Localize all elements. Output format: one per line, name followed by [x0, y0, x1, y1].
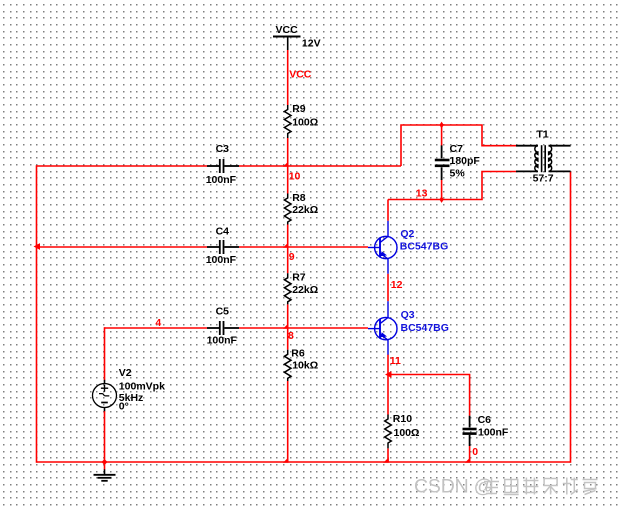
svg-text:C3: C3 — [216, 143, 230, 155]
svg-text:100Ω: 100Ω — [394, 427, 420, 439]
svg-text:8: 8 — [288, 330, 294, 342]
wire center column R6-bottom — [287, 381, 289, 462]
svg-text:13: 13 — [416, 188, 428, 200]
capacitor C3 — [207, 159, 239, 173]
wire node10 row right of C3 — [239, 165, 401, 167]
resistor R10 — [385, 415, 392, 449]
svg-text:BC547BG: BC547BG — [400, 241, 448, 253]
svg-text:100nF: 100nF — [478, 427, 509, 439]
wire node10 riser to top rail — [401, 125, 516, 166]
junction R10 bottom — [383, 457, 389, 463]
svg-text:C7: C7 — [450, 143, 464, 155]
resistor R8 — [284, 194, 291, 225]
svg-text:100nF: 100nF — [206, 174, 237, 186]
wire node12 between Q2 Q3 — [387, 274, 389, 302]
svg-text:9: 9 — [289, 251, 295, 263]
svg-text:22kΩ: 22kΩ — [292, 204, 318, 216]
ground — [94, 469, 116, 481]
wire C7 top stub — [441, 125, 443, 146]
wire center column R8-R7 — [287, 225, 289, 274]
wire node10 row left of C3 — [37, 165, 208, 167]
svg-text:T1: T1 — [537, 128, 549, 140]
transistor Q2 — [368, 221, 397, 274]
power VCC symbol — [273, 37, 301, 51]
capacitor C6 — [463, 416, 477, 446]
svg-text:5%: 5% — [450, 167, 466, 179]
resistor R9 — [284, 105, 291, 138]
wire node13 Q2 collector riser — [387, 200, 389, 221]
transistor Q3 — [368, 301, 397, 355]
wire node9 row right of C4 to Q2 base — [239, 246, 368, 248]
svg-text:180pF: 180pF — [450, 155, 481, 167]
wire center column R9-R8 — [287, 138, 289, 194]
svg-text:57:7: 57:7 — [533, 173, 554, 185]
svg-text:12V: 12V — [302, 38, 321, 50]
svg-text:100mVpk: 100mVpk — [119, 381, 165, 393]
junction node 11 — [385, 371, 392, 378]
svg-text:4: 4 — [155, 317, 161, 329]
junction node 8 — [283, 323, 289, 329]
junction C7 bottom node 13 — [439, 196, 443, 203]
resistor R6 — [284, 350, 291, 381]
svg-text:0: 0 — [472, 446, 478, 458]
watermark CSDN — [414, 476, 493, 498]
wire bottom rail — [37, 461, 571, 463]
wire C7 bottom stub — [441, 180, 443, 200]
junction C7 top — [439, 122, 443, 129]
wire C6 bottom — [469, 446, 471, 462]
wire V2 top — [104, 327, 106, 380]
wire R10 top — [387, 375, 389, 415]
svg-text:Q2: Q2 — [400, 228, 414, 240]
wire node11 rail to C6 — [388, 375, 470, 416]
svg-text:11: 11 — [390, 355, 401, 367]
junction C6 bottom — [465, 457, 471, 463]
svg-text:12: 12 — [391, 279, 403, 291]
svg-text:R7: R7 — [292, 272, 306, 284]
transformer T1 — [516, 145, 571, 172]
svg-text:R8: R8 — [292, 192, 306, 204]
svg-text:BC547BG: BC547BG — [401, 322, 449, 334]
wire node13 rail to transformer — [388, 172, 516, 200]
svg-text:VCC: VCC — [276, 24, 299, 36]
wire VCC stub red — [287, 50, 289, 105]
wire center column R7-R6 — [287, 304, 289, 349]
svg-text:R9: R9 — [292, 103, 306, 115]
svg-text:Q3: Q3 — [401, 309, 415, 321]
svg-text:0°: 0° — [119, 401, 129, 413]
capacitor C5 — [207, 321, 239, 335]
svg-text:C6: C6 — [478, 414, 492, 426]
svg-text:C5: C5 — [216, 306, 230, 318]
svg-text:R6: R6 — [291, 348, 305, 360]
svg-text:V2: V2 — [119, 367, 132, 379]
svg-text:100Ω: 100Ω — [292, 117, 318, 129]
junction node 4 left edge — [34, 243, 41, 250]
capacitor C7 — [435, 145, 450, 180]
svg-text:22kΩ: 22kΩ — [292, 284, 318, 296]
source V2 — [93, 380, 117, 411]
wire R10 bottom — [387, 448, 389, 462]
wire left outer column — [36, 165, 38, 463]
svg-text:C4: C4 — [216, 225, 230, 237]
svg-text:100nF: 100nF — [207, 335, 238, 347]
junction center column bottom — [283, 457, 289, 463]
wire node8 row right of C5 to Q3 base — [239, 327, 368, 329]
junction ground bottom — [102, 459, 108, 465]
wire right outer column from transformer — [570, 172, 572, 463]
resistor R7 — [284, 273, 291, 304]
wire V2 bottom — [104, 411, 106, 470]
watermark glyph blocks — [484, 478, 598, 495]
svg-text:R10: R10 — [393, 413, 412, 425]
capacitor C4 — [207, 240, 239, 254]
svg-text:CSDN @: CSDN @ — [414, 476, 493, 498]
svg-text:VCC: VCC — [289, 69, 312, 81]
wire node9 row left of C4 — [37, 246, 208, 248]
svg-text:10kΩ: 10kΩ — [292, 360, 318, 372]
wire node11 Q3 emitter — [387, 355, 389, 375]
junction node 10 — [283, 161, 289, 167]
junction node 9 — [283, 242, 289, 248]
svg-text:10: 10 — [289, 171, 301, 183]
wire node4 row left of C5 — [105, 327, 208, 329]
svg-text:100nF: 100nF — [206, 254, 237, 266]
